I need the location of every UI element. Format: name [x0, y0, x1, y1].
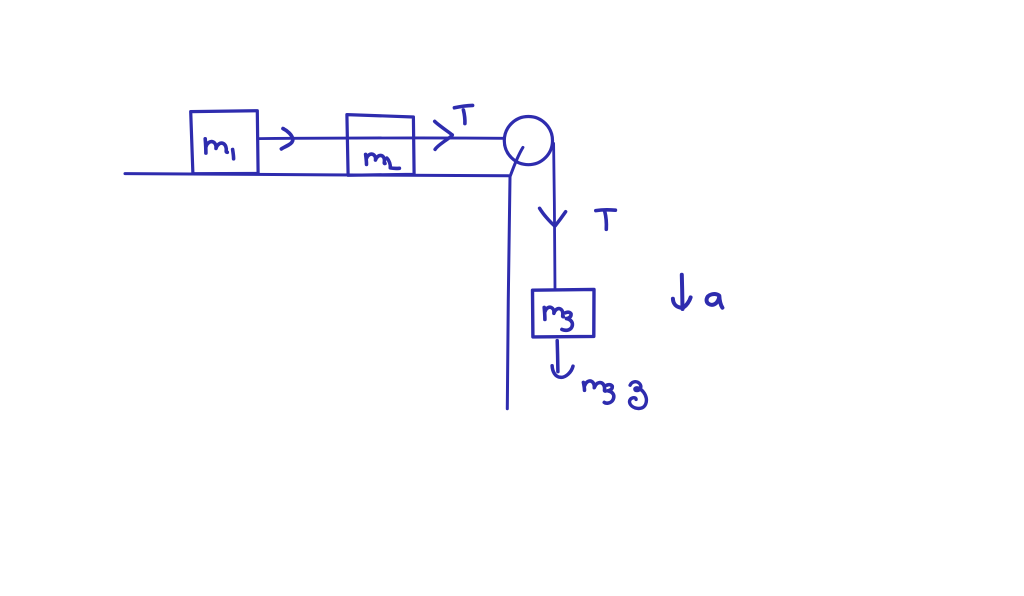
- label m3: [544, 307, 572, 330]
- pulley spoke to table corner: [510, 147, 523, 176]
- block m2: [347, 115, 414, 176]
- label a: [707, 294, 723, 308]
- block m1: [191, 111, 258, 174]
- arrow chevron between m1 and m2: [281, 129, 292, 149]
- wire rope pulley down to m3: [554, 143, 555, 289]
- label T upper: [454, 105, 472, 123]
- table vertical edge: [507, 177, 510, 409]
- label m2: [366, 154, 400, 168]
- label m1: [205, 139, 233, 159]
- pulley: [504, 117, 552, 165]
- label m3 g: [583, 381, 646, 408]
- wire rope m1 to pulley: [258, 136, 504, 140]
- table surface line: [125, 174, 509, 176]
- arrowhead on rope (tension direction): [540, 208, 566, 226]
- arrow chevron before pulley: [435, 121, 453, 149]
- acceleration arrow: [673, 275, 691, 309]
- arrow weight below m3: [552, 341, 573, 378]
- label T lower: [596, 210, 616, 229]
- block m3: [533, 289, 595, 337]
